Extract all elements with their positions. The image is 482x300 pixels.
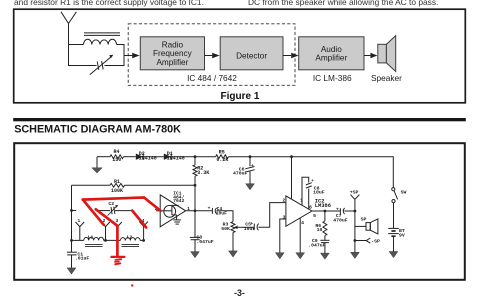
resistor R4: [110, 155, 124, 159]
wire top rail to switch: [292, 157, 394, 188]
op-amp IC2 LM386 triangle: [286, 196, 312, 226]
svg-text:L1: L1: [88, 234, 94, 240]
wire D1 to node: [171, 156, 215, 158]
svg-text:LM386: LM386: [315, 203, 331, 209]
node speaker junction: [354, 210, 357, 213]
ground under C9: [324, 243, 326, 254]
svg-text:-SP: -SP: [371, 239, 380, 245]
svg-text:Figure 1: Figure 1: [221, 91, 260, 102]
IC2 pin 6 supply wire: [291, 157, 293, 200]
svg-text:10uF: 10uF: [244, 226, 256, 232]
ground under IC2 pin 3: [275, 253, 284, 259]
terminal 4: [139, 222, 148, 227]
resistor R1 100K: [72, 184, 111, 186]
svg-text:+: +: [208, 206, 211, 211]
capacitor C8 10uF: [306, 183, 312, 185]
wire C2 left: [98, 210, 111, 212]
node L1/terminal2: [104, 239, 107, 242]
+SP terminal: [350, 195, 359, 200]
svg-text:+SP: +SP: [350, 190, 359, 196]
svg-text:100K: 100K: [111, 188, 123, 194]
IC2 pin 4 wire and label: [299, 218, 301, 253]
node -SP junction: [354, 239, 357, 242]
svg-text:L2: L2: [127, 234, 133, 240]
wire to speaker: [355, 225, 366, 227]
svg-text:Frequency: Frequency: [153, 49, 193, 58]
svg-text:R5: R5: [219, 149, 225, 155]
wire tank rail: [72, 239, 84, 241]
ground under R3: [232, 233, 234, 251]
wire IC2 output to C7: [312, 210, 340, 212]
terminal 3: [113, 222, 122, 227]
inductor L1: [84, 237, 104, 240]
wire R2 node down to IC1 output: [194, 185, 196, 211]
inductor L2: [120, 238, 140, 241]
ground under C1: [71, 255, 73, 268]
red annotation: vertical ground trace: [116, 226, 119, 256]
red ground symbol: [111, 257, 124, 264]
svg-text:Amplifier: Amplifier: [156, 58, 188, 67]
svg-text:SP: SP: [361, 217, 367, 223]
svg-text:.047uF: .047uF: [196, 239, 213, 245]
figure 1 outer border: [14, 9, 466, 103]
IC2 pins 1-8 loop: [302, 177, 309, 205]
resistor R6 10: [324, 211, 326, 221]
svg-text:.047uF: .047uF: [308, 243, 325, 249]
svg-text:IC 484 / 7642: IC 484 / 7642: [187, 73, 237, 83]
variable capacitor (figure 1): [90, 57, 111, 74]
svg-text:4: 4: [301, 220, 304, 226]
svg-text:R4: R4: [113, 149, 119, 155]
capacitor C9 .047uF: [324, 236, 326, 241]
resistor R5: [216, 155, 229, 159]
diode D2 1N4148: [136, 154, 143, 160]
switch SW: [392, 188, 395, 191]
terminal 1: [76, 222, 85, 227]
wire switch to battery: [393, 203, 395, 229]
svg-text:7642: 7642: [173, 198, 184, 204]
variable capacitor C2: [111, 207, 112, 214]
svg-text:+: +: [311, 180, 314, 184]
transistor symbol inside IC1: [164, 205, 176, 217]
diode D1 1N4148: [164, 154, 171, 160]
svg-text:C2: C2: [108, 201, 114, 207]
ground under R4 left: [96, 157, 98, 168]
arrow detector to audio amplifier: [283, 55, 291, 57]
L1 core bars: [85, 243, 103, 245]
node R2/diode junction: [194, 155, 197, 158]
node R1/R2 junction: [194, 184, 197, 187]
wire R3 wiper to C5: [238, 226, 254, 228]
speaker SP: [366, 223, 370, 231]
red dot below schematic: [131, 284, 133, 286]
svg-text:IC LM-386: IC LM-386: [313, 73, 352, 83]
ground under battery: [393, 236, 395, 251]
wire speaker vertical: [354, 211, 356, 252]
wire R5 to C6 node: [229, 156, 251, 158]
wire IC1 input stub: [156, 210, 160, 212]
svg-text:470uF: 470uF: [233, 171, 248, 177]
red annotation: diagonal to terminal 2: [83, 200, 104, 225]
cut-off paragraph text left column: [14, 0, 204, 7]
node L2 right: [142, 239, 145, 242]
ground under C6: [249, 171, 251, 184]
svg-text:470uF: 470uF: [333, 217, 348, 223]
potentiometer R3 50K: [231, 222, 235, 233]
tank circuit loop wire: [69, 45, 125, 66]
node IC1 output junction: [194, 209, 197, 212]
wire top rail left segment: [97, 156, 110, 158]
svg-text:10uF: 10uF: [313, 190, 325, 196]
red annotation: wire highlight horizontal: [83, 198, 161, 256]
arrow audio to speaker: [364, 55, 370, 57]
wire C6-node to IC2 supply node: [250, 156, 292, 158]
detector block: [220, 37, 283, 70]
node tank rail left: [70, 239, 73, 242]
capacitor C6 470uF: [249, 157, 251, 167]
schematic outer border: [14, 143, 465, 280]
wire D2 to D1: [143, 156, 164, 158]
speaker (figure 1): [378, 44, 387, 63]
capacitor C1 .01uF: [67, 251, 77, 253]
svg-text:Audio: Audio: [321, 45, 342, 54]
wire IC1 output: [186, 210, 212, 212]
coil L (figure 1): [84, 39, 117, 44]
heading bar: [13, 118, 466, 121]
svg-text:.01uF: .01uF: [75, 256, 90, 262]
IC2 pin 3 wire and label: [280, 219, 286, 253]
svg-text:150: 150: [112, 157, 121, 163]
capacitor C3 .047uF: [194, 211, 196, 237]
svg-text:2: 2: [282, 197, 285, 203]
cut-off paragraph text right column: [248, 0, 438, 7]
RF amplifier block: [140, 37, 204, 70]
terminal 2: [101, 222, 110, 227]
wire R4 to D2: [124, 156, 136, 158]
red annotation: diagonal to terminal 4: [132, 211, 146, 228]
arrow RF to detector: [205, 55, 213, 57]
wire C4 to R3: [216, 211, 233, 222]
coil core bars: [84, 32, 120, 34]
arrow into RF amplifier: [124, 55, 132, 57]
ground under IC2 pin 4: [296, 253, 305, 259]
wire C5 to IC2 pin 2: [259, 203, 286, 228]
svg-text:Detector: Detector: [236, 51, 267, 60]
node R6 junction: [324, 210, 327, 213]
svg-text:-3-: -3-: [234, 288, 245, 298]
battery BT 9V: [388, 227, 399, 229]
svg-text:+: +: [336, 207, 339, 212]
svg-text:Radio: Radio: [162, 41, 184, 50]
L2 core bars: [122, 243, 140, 245]
svg-text:1: 1: [300, 198, 303, 204]
svg-text:R1: R1: [114, 179, 120, 185]
wire left vertical (R1 to tank rail): [71, 185, 73, 252]
svg-text:3.3K: 3.3K: [197, 170, 209, 176]
ground under speaker: [351, 252, 360, 258]
svg-text:Speaker: Speaker: [371, 73, 402, 83]
-SP terminal: [355, 240, 366, 242]
svg-text:3: 3: [282, 214, 285, 220]
svg-text:SCHEMATIC DIAGRAM AM-780K: SCHEMATIC DIAGRAM AM-780K: [14, 124, 181, 136]
IEC ground under IC1 pin 3: [176, 215, 178, 220]
svg-text:9V: 9V: [399, 233, 405, 239]
svg-text:50K: 50K: [221, 226, 230, 232]
svg-text:1: 1: [78, 218, 81, 224]
wire C2 right: [115, 210, 132, 212]
op-amp IC1 484/7642 triangle: [160, 195, 185, 227]
node IC2 supply junction: [290, 155, 293, 158]
red annotation: diagonal to terminal 3: [96, 209, 118, 226]
antenna: [61, 12, 76, 45]
resistor R2 3.3K: [194, 157, 196, 165]
svg-text:0.2K: 0.2K: [216, 157, 228, 163]
svg-text:+: +: [251, 164, 254, 169]
node C6 junction: [249, 155, 252, 158]
dashed IC box (figure 1): [128, 24, 295, 86]
svg-text:8: 8: [309, 205, 312, 211]
node stub at IC1 input level: [70, 209, 73, 212]
audio amplifier block: [299, 37, 364, 70]
wire C7 to speaker node: [344, 210, 355, 212]
svg-text:SW: SW: [401, 189, 407, 195]
svg-text:Amplifier: Amplifier: [315, 54, 347, 63]
svg-text:5: 5: [313, 213, 316, 219]
ground under C3: [194, 240, 196, 252]
svg-text:10: 10: [317, 227, 323, 233]
